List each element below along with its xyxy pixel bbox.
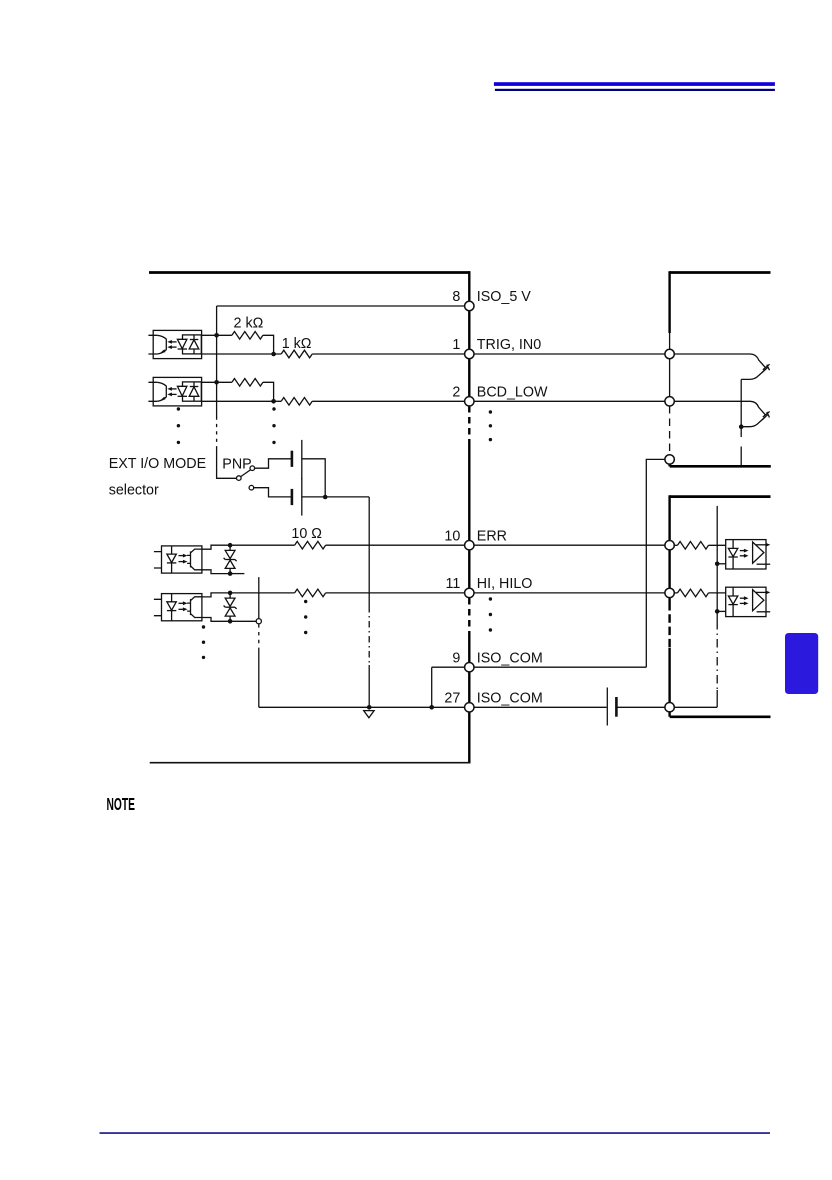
svg-text:ISO_COM: ISO_COM (477, 650, 543, 666)
svg-text:11: 11 (445, 576, 460, 592)
svg-text:2: 2 (452, 385, 460, 401)
svg-text:ISO_5 V: ISO_5 V (477, 289, 532, 305)
svg-text:TRIG, IN0: TRIG, IN0 (477, 337, 541, 353)
svg-text:ERR: ERR (477, 528, 507, 544)
svg-text:1: 1 (452, 337, 460, 353)
svg-text:10: 10 (444, 528, 460, 544)
svg-text:2 kΩ: 2 kΩ (234, 316, 264, 332)
svg-text:10 Ω: 10 Ω (291, 526, 322, 542)
svg-text:EXT I/O MODE: EXT I/O MODE (109, 456, 206, 472)
svg-text:selector: selector (109, 483, 159, 499)
svg-text:HI, HILO: HI, HILO (477, 576, 533, 592)
svg-text:BCD_LOW: BCD_LOW (477, 385, 548, 401)
svg-text:NOTE: NOTE (107, 795, 135, 815)
svg-text:8: 8 (452, 289, 460, 305)
svg-text:9: 9 (452, 650, 460, 666)
svg-text:ISO_COM: ISO_COM (477, 691, 543, 707)
svg-text:PNP: PNP (222, 456, 251, 472)
svg-text:1 kΩ: 1 kΩ (282, 336, 312, 352)
svg-text:27: 27 (444, 691, 460, 707)
